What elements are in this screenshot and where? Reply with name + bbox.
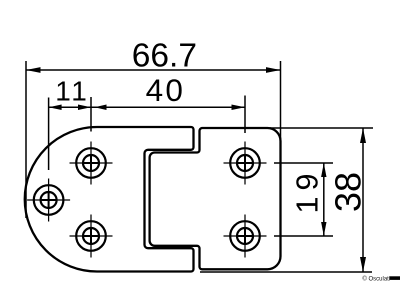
- svg-text:© Osculati: © Osculati: [362, 276, 390, 283]
- dimension 66.7 right extension line: [280, 61, 282, 143]
- svg-text:38: 38: [327, 172, 368, 212]
- dimension 40 right arrowhead: [232, 104, 246, 110]
- dimension 38 dimension line: [362, 128, 364, 272]
- hole H5 bottom-right: outer circle: [230, 221, 260, 251]
- hole H3 screw cross: [42, 193, 56, 207]
- dimension 11/40 shared extension line (hole H1 centerline): [90, 97, 92, 132]
- hole H4 top-right: outer circle: [230, 148, 260, 178]
- hole H5 inner circle: [237, 228, 253, 244]
- dimension 19 bottom arrowhead: [321, 222, 326, 236]
- dimension 11 left arrowhead: [49, 104, 62, 110]
- dimension 40 left arrowhead: [95, 104, 107, 110]
- black bar at edge: [390, 276, 400, 280]
- dimension 66.7 right arrowhead: [266, 67, 281, 73]
- dimension 66.7 left arrowhead: [26, 67, 41, 73]
- dimension 66.7 left extension line: [25, 61, 27, 218]
- hinge right leaf outline with tongue: [150, 128, 281, 269]
- dimension 66.7 dimension line: [26, 69, 281, 71]
- hole H3 inner circle: [41, 192, 57, 208]
- hole H1 screw cross: [84, 156, 98, 170]
- dimension 19 bottom extension line: [274, 235, 333, 237]
- dimension 11/40 dimension line: [49, 106, 245, 108]
- dimension 11 left extension line (hole H3 centerline): [48, 98, 50, 171]
- svg-text:11: 11: [55, 76, 89, 107]
- hole H2 bottom-left: outer circle: [76, 221, 106, 251]
- hole H2 inner circle: [83, 228, 99, 244]
- hole H2 centerlines: [70, 215, 113, 258]
- dimension 19 dimension line: [323, 163, 325, 236]
- hole H3 left-end: outer circle: [34, 185, 64, 215]
- hole H5 screw cross: [238, 229, 252, 243]
- dimension 40 right extension line (hole H4 centerline): [244, 96, 246, 134]
- hole H5 centerlines: [224, 215, 267, 258]
- svg-text:19: 19: [291, 168, 325, 214]
- svg-text:40: 40: [146, 72, 186, 108]
- svg-text:66.7: 66.7: [132, 38, 197, 75]
- dimension 38 top arrowhead: [360, 128, 366, 143]
- dimension 38 bottom arrowhead: [360, 257, 366, 272]
- hole H3 centerlines: [27, 179, 70, 222]
- dimension 19 top extension line: [274, 162, 333, 164]
- hole H2 screw cross: [84, 229, 98, 243]
- hole H4 centerlines: [224, 142, 267, 185]
- hinge left leaf outline (rounded end with notch cutout): [25, 127, 194, 272]
- hole H1 top-left: outer circle: [76, 148, 106, 178]
- dimension 19 top arrowhead: [321, 163, 326, 177]
- dimension 11 right arrowhead: [78, 104, 91, 110]
- hole H1 centerlines: [70, 142, 113, 185]
- hole H4 screw cross: [238, 156, 252, 170]
- dimension 38 top extension line: [270, 127, 373, 129]
- hole H1 inner circle: [83, 155, 99, 171]
- hole H4 inner circle: [237, 155, 253, 171]
- dimension 38 bottom extension line: [200, 271, 372, 273]
